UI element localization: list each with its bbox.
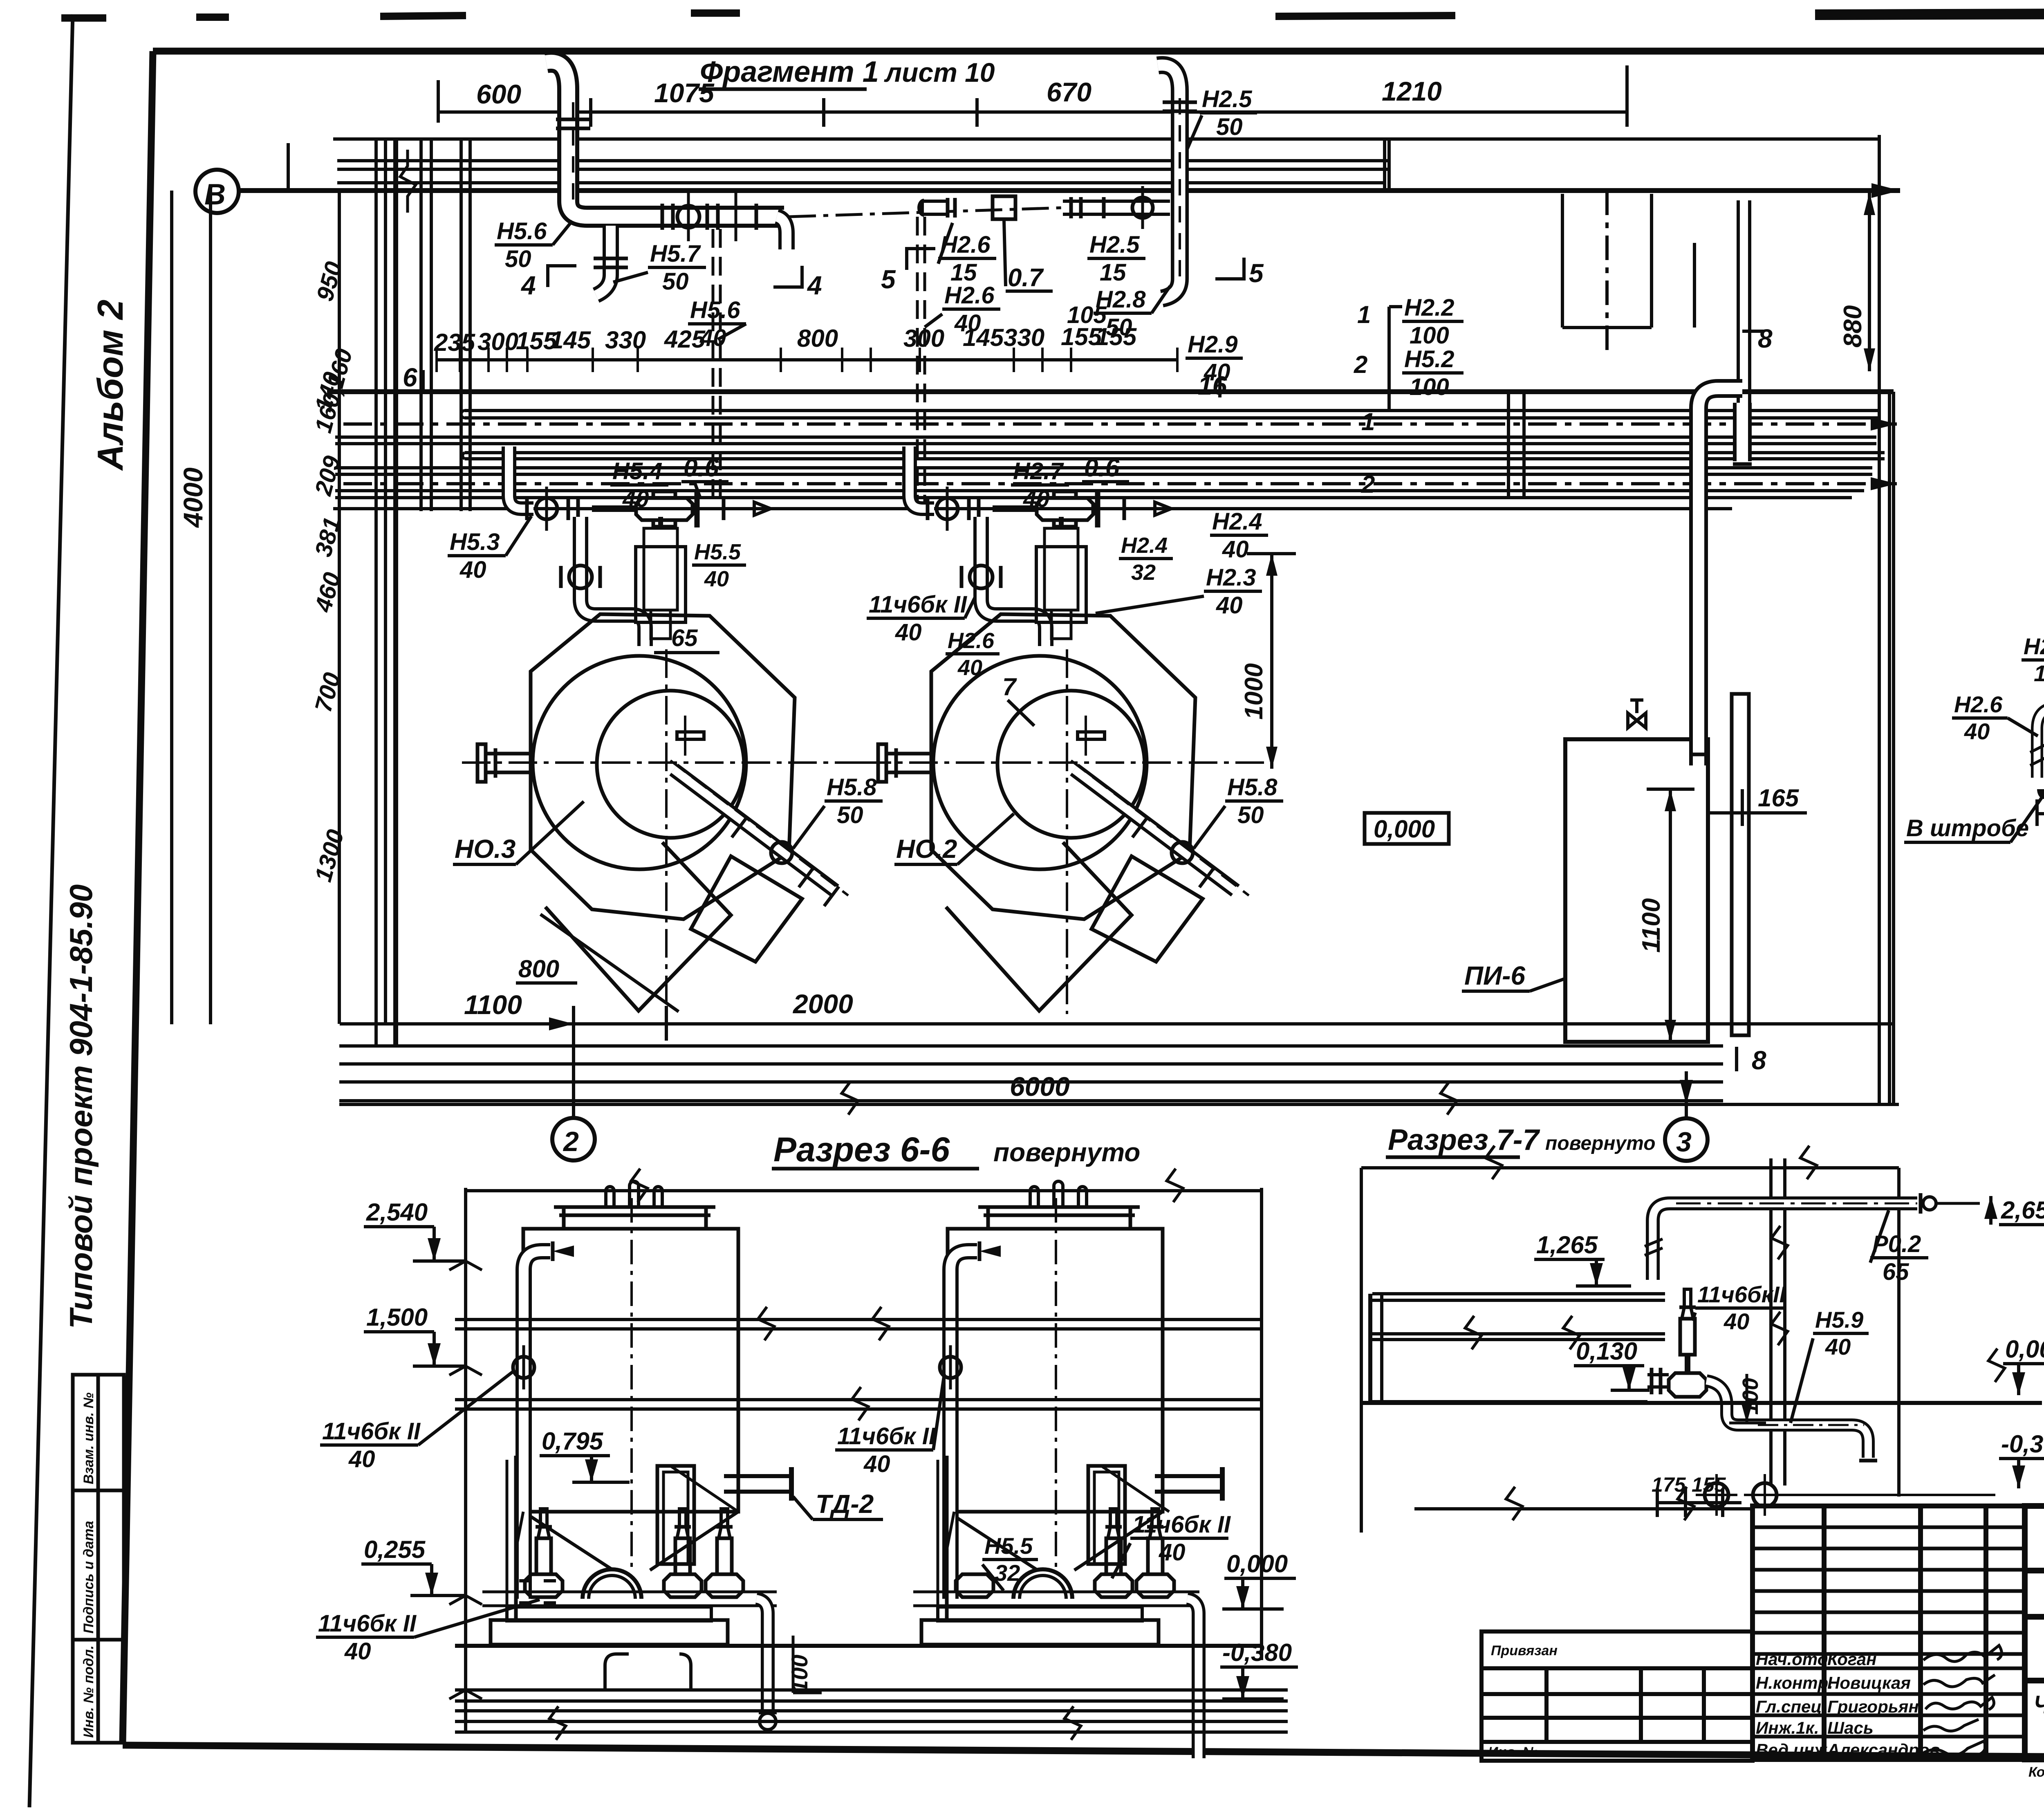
pump inner circle: [597, 691, 744, 838]
node B axis circle: [195, 170, 239, 213]
orifice 0.7 box: [993, 196, 1015, 219]
svg-text:В: В: [204, 178, 226, 211]
svg-text:Н5.5: Н5.5: [984, 1533, 1033, 1559]
label 11ч6бкII/40: [1692, 1281, 1786, 1334]
top scan edge bar: [61, 12, 2044, 18]
section title: [773, 1130, 1140, 1169]
label 0.7: [1004, 221, 1053, 292]
svg-text:8: 8: [1758, 324, 1773, 353]
left stub: [1647, 1373, 1669, 1376]
svg-text:15: 15: [2034, 660, 2044, 686]
tank ПИ-6 box: [1462, 739, 1708, 1042]
label 0.6 (pump2): [1082, 454, 1129, 482]
wire: dash-dot run to Н2.5 cluster: [789, 208, 1063, 217]
dimension row top: [438, 65, 1627, 127]
svg-text:11ч6бк II: 11ч6бк II: [869, 591, 968, 618]
svg-text:50: 50: [1106, 314, 1132, 341]
svg-text:2,540: 2,540: [366, 1198, 428, 1226]
pipe elbow Н5.3: [509, 447, 533, 509]
section flag 4 right: [773, 266, 822, 300]
bottom line: [1414, 1507, 1751, 1510]
label 0,795: [540, 1427, 630, 1482]
svg-text:6: 6: [403, 363, 417, 392]
pipe discharge diagonal Н5.8: [674, 770, 835, 891]
svg-text:40: 40: [704, 567, 729, 591]
node axis circle 2: [552, 1041, 595, 1160]
pipe branch Н5.7 down: [594, 226, 628, 295]
tank 1: [523, 1181, 738, 1570]
svg-text:Н5.4: Н5.4: [612, 458, 663, 485]
level 2,540: [364, 1198, 466, 1261]
wall opening right: [1562, 191, 1652, 354]
svg-text:11ч6бк II: 11ч6бк II: [322, 1418, 421, 1445]
center dashed: [630, 1198, 633, 1570]
vertical structure lines: [288, 135, 1894, 1104]
pump unit 1 (under tank1): [482, 1456, 777, 1730]
label Н2.5/15: [1087, 231, 1145, 286]
svg-text:0,000: 0,000: [1374, 815, 1435, 843]
svg-text:0,000: 0,000: [2005, 1335, 2044, 1363]
svg-text:Фрагмент 1: Фрагмент 1: [700, 56, 879, 88]
pipe riser to ПИ-6: [1689, 388, 1752, 765]
svg-text:0,000: 0,000: [1226, 1550, 1288, 1578]
dim 100 rotated: [787, 1636, 822, 1693]
svg-text:11ч6бк II: 11ч6бк II: [837, 1423, 936, 1450]
dim 165: [1708, 784, 1807, 826]
svg-text:1,500: 1,500: [366, 1304, 428, 1331]
right boundary: [1260, 1188, 1263, 1660]
svg-text:40: 40: [1724, 1308, 1749, 1334]
label Н2.9/40: [1186, 331, 1243, 386]
wire: band end verticals: [1383, 141, 1386, 190]
label Н5.4/40: [610, 458, 668, 512]
tank 2: [948, 1181, 1163, 1570]
node labels 1:Н2.2/100 2:Н5.2/100: [1354, 294, 1464, 411]
label Н2.4/40: [1210, 508, 1268, 563]
svg-text:11ч6бк II: 11ч6бк II: [318, 1610, 417, 1637]
pipe riser Н2.8 (right, hooks down): [1158, 65, 1197, 298]
svg-text:Н5.6: Н5.6: [497, 218, 547, 245]
outer thin left border: [29, 14, 73, 1807]
svg-text:330: 330: [605, 326, 646, 354]
section flag 8 bottom: [1737, 1046, 1766, 1075]
label Н2.6/15: [938, 223, 996, 286]
svg-text:5: 5: [881, 265, 896, 294]
pipe drop to pump2: [961, 517, 1046, 646]
dims 175 155: [1652, 1473, 1741, 1517]
svg-text:50: 50: [505, 246, 531, 272]
svg-text:100: 100: [787, 1655, 812, 1693]
centerlines: [462, 761, 867, 764]
svg-text:Инж.1к.: Инж.1к.: [1756, 1718, 1819, 1737]
svg-text:6000: 6000: [1010, 1071, 1070, 1102]
svg-text:600: 600: [476, 79, 521, 109]
pipe run Н2.5 with valve: [1063, 186, 1170, 229]
svg-text:40: 40: [1023, 486, 1050, 512]
svg-text:7: 7: [1002, 673, 1017, 700]
dim 1000 vertical: [1240, 554, 1296, 769]
label Н5.5/32: [982, 1533, 1038, 1591]
svg-text:Вед.инж: Вед.инж: [1756, 1740, 1828, 1759]
dim 65: [654, 625, 719, 653]
wire: lower pipe band: [335, 408, 1897, 498]
level -0,380 right: [1220, 1639, 1298, 1699]
svg-text:40: 40: [459, 557, 486, 583]
svg-text:1075: 1075: [654, 78, 715, 108]
pipe riser Н5.6 (left): [546, 62, 784, 217]
valve cluster pump2: [928, 487, 1171, 531]
svg-text:Н5.6: Н5.6: [690, 297, 740, 323]
label Н5.7/50: [613, 240, 706, 295]
svg-text:165: 165: [1758, 784, 1800, 812]
svg-text:40: 40: [863, 1451, 890, 1477]
S-pipe to lower run: [1706, 1381, 1868, 1458]
svg-text:2: 2: [1361, 471, 1375, 498]
pump outer circle: [533, 656, 746, 869]
tee fitting Н5.4: [636, 498, 693, 520]
svg-text:Н5.7: Н5.7: [650, 240, 701, 267]
label Н2.6/15 (5-5): [2022, 633, 2044, 701]
svg-text:Разрез 6-6: Разрез 6-6: [773, 1130, 950, 1169]
section flag 4 left: [520, 266, 576, 300]
label Н5.8/50 pump1: [793, 774, 883, 848]
svg-text:ПИ-6: ПИ-6: [1464, 961, 1525, 990]
pipe dashed riser Н2.6/40: [917, 217, 925, 509]
svg-text:15: 15: [1100, 259, 1126, 286]
cross fittings with stem valves: [519, 1509, 563, 1603]
label 11ч6бкII/40 bottom-left: [316, 1600, 540, 1665]
svg-text:Чертеж расположения: Чертеж расположения: [2034, 1691, 2044, 1719]
svg-text:0.6: 0.6: [1084, 454, 1120, 482]
label 11ч6бкII/40 mid: [835, 1374, 944, 1477]
funnel support lines: [516, 1466, 738, 1550]
label Н5.9/40: [1791, 1307, 1869, 1423]
svg-text:Шась: Шась: [1827, 1718, 1874, 1737]
wire: lower thick floor line: [327, 389, 1894, 394]
main right boxes: [2025, 1506, 2044, 1759]
label Н5.6/40: [688, 297, 746, 351]
riser pipe tank1: [513, 1241, 574, 1599]
support frame: [514, 1456, 518, 1619]
nozzles: [606, 1187, 614, 1207]
level 0,255: [361, 1536, 466, 1596]
valve symbol above ПИ-6: [1628, 700, 1646, 728]
label 0.6 (pump1): [681, 454, 728, 497]
svg-text:Взам. инв. №: Взам. инв. №: [81, 1392, 96, 1484]
svg-text:670: 670: [1047, 77, 1091, 107]
svg-text:800: 800: [518, 955, 559, 983]
svg-text:11ч6бкII: 11ч6бкII: [1697, 1281, 1786, 1307]
svg-text:Н2.2: Н2.2: [1404, 294, 1455, 321]
svg-text:50: 50: [837, 802, 863, 828]
svg-text:4: 4: [807, 271, 822, 300]
svg-text:11ч6бк II: 11ч6бк II: [1132, 1511, 1231, 1538]
baseplate: [491, 1620, 728, 1645]
svg-text:повернуто: повернуто: [1545, 1133, 1656, 1154]
label Н2.7/40: [1011, 458, 1069, 512]
label Н5.6/50: [495, 218, 572, 272]
base quads: [545, 842, 731, 1011]
svg-text:145: 145: [550, 326, 592, 354]
label Р0.2/65: [1870, 1210, 1928, 1285]
svg-text:-0,380: -0,380: [1222, 1639, 1292, 1666]
svg-text:Н2.3: Н2.3: [1206, 564, 1256, 591]
label Н2.5/50 top right: [1177, 86, 1257, 172]
signature names: [1756, 1649, 1940, 1759]
floor line: [1361, 1401, 2042, 1405]
box outline: [1361, 1166, 1899, 1169]
bottom-left stamp table: [73, 1375, 124, 1743]
level 2,650: [1984, 1196, 2044, 1225]
label Н2.4/32: [1119, 533, 1173, 585]
svg-text:0.7: 0.7: [1008, 264, 1044, 292]
equipment box pump2: [1036, 517, 1086, 639]
svg-text:0.6: 0.6: [684, 454, 719, 482]
svg-text:4000: 4000: [178, 467, 208, 528]
svg-text:Н2.5: Н2.5: [1089, 231, 1140, 258]
svg-text:50: 50: [1237, 802, 1264, 828]
svg-text:Н.контр.: Н.контр.: [1756, 1673, 1833, 1692]
section flag 5 right: [1215, 258, 1264, 288]
svg-text:3: 3: [1676, 1127, 1692, 1158]
horizontal pipe: [482, 1591, 777, 1593]
svg-text:1100: 1100: [1637, 898, 1665, 953]
svg-text:Н2.9: Н2.9: [1188, 331, 1238, 358]
dim 800 diagonal: [540, 914, 679, 1012]
pipe elbow Н2.7 (pump2): [910, 447, 934, 509]
svg-text:2000: 2000: [792, 989, 853, 1019]
svg-text:Копировал: Копировал: [2028, 1764, 2044, 1780]
svg-text:Григорьян: Григорьян: [1827, 1697, 1919, 1716]
wire: plan left boundary vertical: [170, 191, 173, 1024]
pump unit 2 (under tank2): [913, 1456, 1222, 1758]
label Н2.8/50: [1094, 286, 1170, 341]
wire: lines below plan: [339, 1044, 1723, 1048]
svg-text:Н5.2: Н5.2: [1404, 346, 1455, 373]
svg-text:Нач.отд: Нач.отд: [1756, 1649, 1828, 1669]
pump casing hexagon: [931, 614, 1195, 919]
level 1,500: [364, 1304, 466, 1366]
valve on run Н5.6: [662, 192, 756, 241]
svg-text:Инв. №: Инв. №: [1488, 1744, 1538, 1760]
svg-text:Н5.8: Н5.8: [1227, 774, 1277, 801]
svg-text:155: 155: [1692, 1473, 1726, 1496]
pipe elbow down (end of Н5.6 run): [777, 217, 787, 249]
label Н5.5/40 (upper): [692, 540, 746, 591]
signatures scribbles: [1921, 1645, 2001, 1755]
label 11ч6бкII/40 left: [320, 1371, 514, 1472]
beams left: [1370, 1294, 1665, 1403]
svg-text:65: 65: [1883, 1259, 1909, 1285]
dim line left chain: [310, 191, 358, 1024]
pump volute: [583, 1569, 641, 1599]
svg-text:1: 1: [1361, 408, 1375, 435]
svg-text:повернуто: повернуто: [993, 1138, 1140, 1167]
pipe drop to pump1: [561, 517, 645, 646]
svg-text:Н2.6: Н2.6: [1954, 691, 2003, 717]
svg-text:40: 40: [1825, 1334, 1851, 1360]
svg-text:Привязан: Привязан: [1491, 1643, 1558, 1658]
section flag 8 right: [1742, 324, 1773, 353]
svg-text:Подпись и дата: Подпись и дата: [81, 1521, 96, 1634]
svg-text:Н2.4: Н2.4: [1121, 533, 1168, 558]
svg-text:Н2.8: Н2.8: [1096, 286, 1146, 313]
bottom dim line 1100/2000: [340, 989, 1893, 1041]
equipment box pump1: [636, 517, 686, 639]
svg-text:Типовой проект 904-1-85.90: Типовой проект 904-1-85.90: [63, 884, 99, 1329]
svg-text:0,255: 0,255: [364, 1536, 426, 1563]
svg-text:40: 40: [895, 619, 922, 646]
svg-text:В штробе: В штробе: [1906, 815, 2029, 842]
ground & floor lines: [455, 1646, 1288, 1740]
svg-text:Разрез 7-7: Разрез 7-7: [1388, 1124, 1540, 1156]
svg-text:300: 300: [477, 328, 518, 355]
svg-text:Новицкая: Новицкая: [1827, 1673, 1911, 1692]
node axis circle 3: [1665, 1071, 1708, 1161]
svg-text:1: 1: [1357, 301, 1371, 328]
svg-text:0,795: 0,795: [542, 1427, 604, 1455]
wall bar right: [1732, 694, 1749, 1035]
dim 6000 line: [339, 1071, 1899, 1115]
dim 100 rotated: [1729, 1374, 1766, 1423]
wire: upper wall line: [333, 137, 1879, 141]
section title: [1388, 1124, 1656, 1156]
svg-text:0,130: 0,130: [1576, 1337, 1637, 1365]
wire: upper pipe band: [337, 159, 1389, 162]
svg-text:Н5.5: Н5.5: [694, 540, 741, 564]
svg-text:5: 5: [1249, 258, 1264, 288]
riser pipe tank2: [940, 1241, 1001, 1599]
level 0,000: [1988, 1335, 2044, 1395]
label 11ч6бкII/40 (plan): [867, 585, 981, 646]
valve cluster: [1647, 1289, 1877, 1461]
level 0,000 right: [1222, 1550, 1296, 1609]
svg-text:40: 40: [1216, 592, 1243, 619]
label 0,130: [1574, 1337, 1650, 1390]
svg-text:8: 8: [1752, 1046, 1766, 1075]
wall center double: [1769, 1158, 1773, 1486]
pipe Р0.2 top run: [1645, 1193, 1980, 1280]
anchor bolts: [1696, 1474, 1995, 1516]
rails lower: [455, 1387, 1262, 1421]
label Н2.6/40 (5-5): [1952, 691, 2038, 744]
section flag 5 left: [881, 249, 935, 294]
svg-text:-0,370: -0,370: [2001, 1430, 2044, 1458]
wire: B axis line: [239, 188, 1900, 193]
valve cluster pump1: [527, 487, 771, 531]
svg-text:40: 40: [1222, 536, 1249, 563]
wire: line under band: [335, 496, 1852, 499]
label Н2.6/40: [925, 282, 1000, 337]
svg-text:2,650: 2,650: [2001, 1196, 2044, 1224]
svg-text:1000: 1000: [1240, 663, 1268, 720]
pump casing hexagon: [531, 614, 795, 919]
svg-text:2: 2: [563, 1126, 579, 1157]
wire: valve run line: [333, 507, 1732, 510]
funnel bottom: [523, 1512, 738, 1570]
svg-text:100: 100: [1410, 322, 1449, 349]
svg-text:НО.3: НО.3: [455, 834, 515, 864]
svg-text:40: 40: [1964, 718, 1990, 744]
label Н5.8/50 pump2: [1194, 774, 1283, 848]
svg-text:1100: 1100: [464, 990, 522, 1020]
section flag 16: [1198, 371, 1227, 400]
svg-text:2: 2: [1354, 351, 1367, 378]
stem valve: [1680, 1319, 1695, 1355]
svg-text:880: 880: [1839, 305, 1867, 348]
suction stub left: [484, 752, 531, 756]
svg-text:4: 4: [520, 271, 536, 300]
svg-text:100: 100: [1410, 374, 1449, 400]
pedestal under pump1 drain: [605, 1654, 691, 1690]
title Фрагмент 1 лист 10: [700, 56, 995, 88]
svg-text:1210: 1210: [1382, 76, 1442, 106]
dimension row under band (235 300 ...): [434, 323, 1177, 372]
dim 1100 vertical: [1637, 789, 1694, 1042]
dim 880 vertical: [1839, 192, 1875, 371]
pipe dashed riser Н5.6/40: [713, 229, 720, 509]
svg-text:Н2.6: Н2.6: [2024, 633, 2044, 659]
svg-text:Н5.3: Н5.3: [450, 529, 500, 555]
signature grid: [1753, 1506, 2025, 1759]
svg-text:330: 330: [1004, 324, 1044, 351]
left elbow + drop: [2037, 707, 2044, 778]
svg-text:40: 40: [344, 1638, 371, 1665]
svg-text:16: 16: [1198, 371, 1227, 400]
elevation box 0,000: [1365, 813, 1449, 844]
svg-text:Гл.спец: Гл.спец: [1756, 1697, 1822, 1716]
svg-text:235: 235: [434, 329, 476, 356]
motor/stand: [657, 1466, 694, 1564]
svg-text:Альбом 2: Альбом 2: [90, 300, 130, 471]
svg-text:40: 40: [954, 310, 981, 337]
level -0,370: [1999, 1430, 2044, 1488]
svg-text:Н2.6: Н2.6: [944, 282, 995, 309]
svg-text:50: 50: [1216, 114, 1243, 140]
svg-text:Коган: Коган: [1827, 1649, 1876, 1669]
label В штробе (5-5): [1904, 797, 2042, 842]
svg-text:50: 50: [662, 268, 689, 295]
privyazan table: [1481, 1631, 1753, 1761]
svg-text:Н2.5: Н2.5: [1202, 86, 1252, 112]
lower run 5-5: [2030, 636, 2044, 799]
drop elbow right: [756, 1599, 768, 1709]
rails at +1.500: [455, 1307, 1262, 1340]
svg-text:ТД-2: ТД-2: [816, 1489, 874, 1519]
label Н5.3/40: [448, 516, 531, 583]
svg-text:Н2.7: Н2.7: [1013, 458, 1064, 485]
svg-text:Н5.9: Н5.9: [1815, 1307, 1863, 1333]
svg-text:Н5.8: Н5.8: [827, 774, 877, 801]
label 1,265: [1534, 1231, 1631, 1286]
dim row 395 375 260 180: [2037, 769, 2044, 826]
svg-text:40: 40: [348, 1446, 375, 1472]
svg-text:Александров: Александров: [1827, 1740, 1940, 1759]
svg-text:НО.2: НО.2: [896, 834, 957, 864]
svg-text:32: 32: [1131, 560, 1156, 585]
dim vertical 4000: [178, 189, 211, 1024]
svg-text:Н2.4: Н2.4: [1212, 508, 1262, 535]
label 11ч6бкII/40 right: [1112, 1511, 1231, 1578]
svg-text:Инв. № подл.: Инв. № подл.: [81, 1645, 96, 1738]
section flag 6: [403, 363, 423, 392]
svg-text:40: 40: [1159, 1539, 1186, 1566]
svg-text:40: 40: [622, 486, 649, 512]
top boundary line: [466, 1189, 1262, 1192]
svg-text:1,265: 1,265: [1536, 1231, 1598, 1259]
cross fitting: [1669, 1373, 1706, 1397]
svg-text:65: 65: [671, 625, 698, 651]
